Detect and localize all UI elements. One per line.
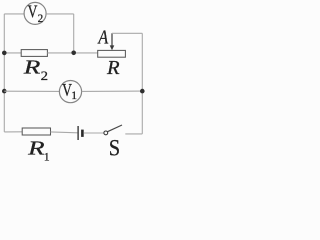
svg-text:R: R bbox=[106, 57, 120, 79]
wire mid row left segment bbox=[4, 52, 21, 54]
wire top-left to V2 bbox=[4, 13, 24, 15]
node junction left-mid bbox=[2, 51, 7, 56]
battery short plate bbox=[81, 130, 84, 137]
wire switch contact to right vertical bbox=[125, 133, 142, 135]
svg-text:R: R bbox=[22, 57, 41, 79]
wire V1 row right bbox=[82, 90, 143, 92]
svg-text:1: 1 bbox=[71, 90, 77, 102]
wire R1 to battery bbox=[51, 131, 78, 134]
wire slider to top-right bbox=[112, 32, 142, 34]
voltmeter V1 bbox=[59, 81, 81, 103]
battery long plate bbox=[77, 126, 79, 140]
wire bottom left bbox=[4, 131, 22, 133]
svg-text:A: A bbox=[97, 26, 109, 48]
node junction left V1 row bbox=[2, 89, 7, 94]
svg-text:R: R bbox=[27, 137, 45, 159]
rheostat R body bbox=[98, 50, 126, 57]
wire mid row right segment bbox=[47, 52, 97, 54]
node junction right V1 row bbox=[140, 89, 145, 94]
voltmeter V2 bbox=[24, 2, 46, 24]
wire V1 row left bbox=[4, 90, 59, 92]
svg-text:S: S bbox=[109, 135, 120, 160]
wire V2 to top-right corner bbox=[46, 13, 73, 15]
switch S pivot bbox=[104, 131, 108, 135]
switch blade bbox=[108, 125, 123, 132]
rheostat slider arrow bbox=[111, 33, 113, 46]
svg-text:V: V bbox=[28, 2, 38, 22]
node junction mid bbox=[71, 51, 76, 56]
resistor R1 bbox=[22, 128, 50, 135]
svg-text:2: 2 bbox=[38, 12, 44, 25]
wire right vertical bbox=[141, 33, 143, 134]
resistor R2 bbox=[21, 50, 47, 57]
wire vertical from top corner down to mid row bbox=[73, 14, 75, 53]
svg-text:1: 1 bbox=[44, 152, 50, 162]
wire battery to switch bbox=[84, 132, 104, 134]
svg-text:2: 2 bbox=[41, 69, 48, 83]
wire left vertical bbox=[3, 14, 5, 132]
